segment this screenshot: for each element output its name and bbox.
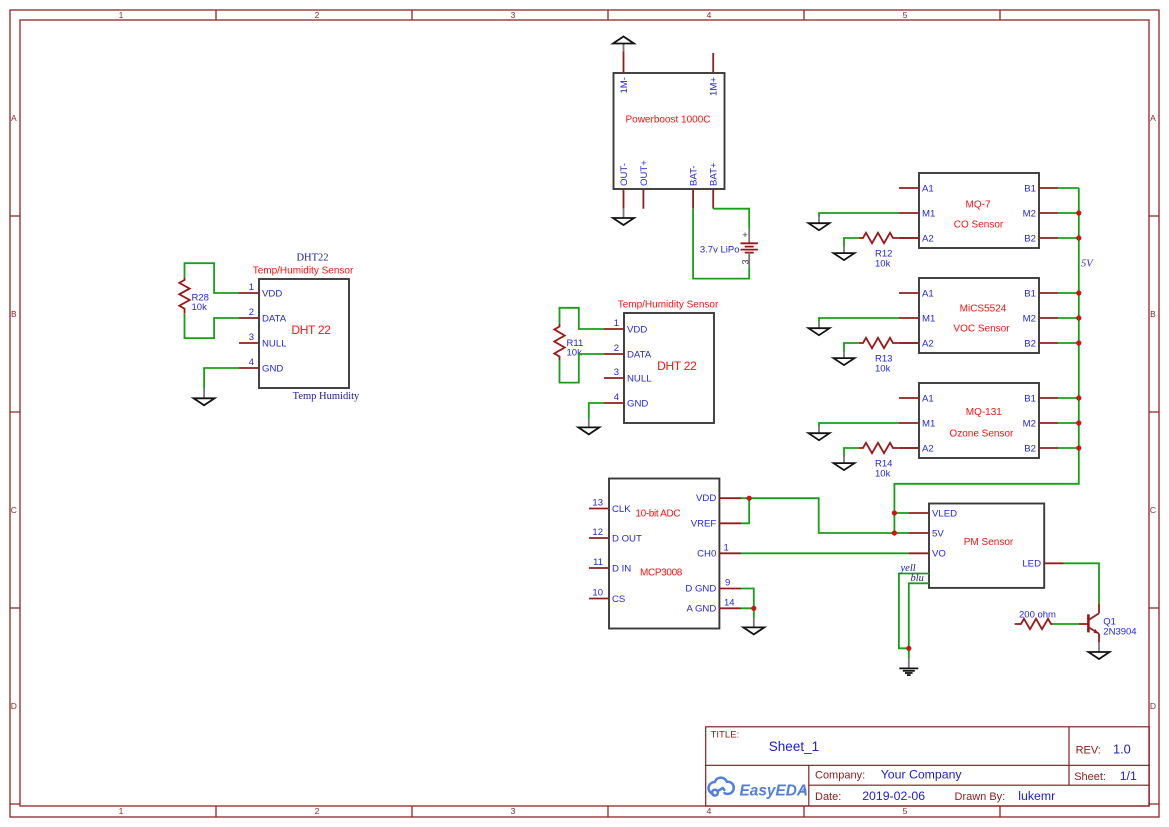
svg-text:Date:: Date: [815, 791, 841, 803]
U6 pin A2 [899, 338, 934, 349]
wire U5 M1 to ground [819, 213, 899, 217]
U7 name MQ-131 [966, 407, 1003, 418]
svg-text:5: 5 [903, 10, 908, 20]
svg-text:B2: B2 [1024, 338, 1036, 349]
U4 name MCP3008 [640, 568, 683, 579]
svg-text:A GND: A GND [686, 603, 716, 614]
R28 label [192, 293, 209, 314]
ground flag R14 [834, 457, 855, 471]
U3 pin 4 GND [239, 357, 283, 374]
junction at U8 5V [892, 530, 897, 535]
R12 label [875, 248, 892, 269]
wire R14 left to ground [844, 448, 859, 457]
svg-text:TITLE:: TITLE: [711, 730, 740, 741]
U6 pin M2 [1023, 313, 1058, 324]
svg-text:1M+: 1M+ [709, 77, 720, 96]
svg-text:1: 1 [249, 282, 254, 293]
svg-text:B2: B2 [1024, 443, 1036, 454]
svg-text:Drawn By:: Drawn By: [955, 791, 1006, 803]
svg-text:2: 2 [614, 343, 619, 354]
svg-text:B1: B1 [1024, 393, 1036, 404]
wire U4 CH0 to PM VO [741, 552, 909, 554]
frame column numbers top [119, 10, 908, 20]
earth ground below PM sensor [899, 658, 918, 675]
svg-text:DHT 22: DHT 22 [291, 323, 331, 337]
U8 pin LED [1022, 559, 1063, 570]
U4 pin 14 A GND [686, 598, 741, 615]
svg-text:VDD: VDD [696, 493, 716, 504]
svg-text:10k: 10k [192, 302, 208, 313]
svg-text:B: B [11, 309, 17, 319]
svg-text:B2: B2 [1024, 233, 1036, 244]
EasyEDA logo cloud [709, 778, 734, 796]
value 2019-02-06 [862, 789, 925, 803]
ground flag U2 [578, 419, 599, 434]
ground flag R12 [834, 247, 855, 261]
svg-text:C: C [11, 505, 17, 515]
wire 5V net to U8 VLED [894, 512, 909, 514]
power flag down at OUT- [613, 209, 634, 225]
wire U6 M1 to ground [819, 318, 899, 322]
wire U2 GND down [589, 403, 604, 419]
svg-text:2: 2 [315, 806, 320, 816]
U8 pin VO [909, 549, 946, 560]
svg-text:M2: M2 [1023, 418, 1036, 429]
U6 pin B2 [1024, 338, 1058, 349]
R13 pin stub to A2 [899, 342, 919, 344]
svg-text:D: D [1150, 701, 1156, 711]
U3 label DHT22 [296, 253, 328, 264]
svg-text:C: C [1150, 505, 1156, 515]
svg-text:NULL: NULL [262, 338, 287, 349]
U7 pin B1 [1024, 393, 1058, 404]
svg-text:12: 12 [592, 527, 603, 538]
wire U6 B1 to 5V net [1058, 292, 1079, 294]
svg-text:4: 4 [614, 392, 619, 403]
svg-text:B1: B1 [1024, 288, 1036, 299]
label Sheet: [1074, 771, 1106, 783]
R14 pin stub to A2 [899, 447, 919, 449]
U7 label Ozone Sensor [949, 429, 1014, 440]
net label 5V [1081, 258, 1094, 269]
svg-text:3: 3 [614, 367, 619, 378]
svg-text:2N3904: 2N3904 [1103, 627, 1136, 638]
U1 pin 1M+ [709, 53, 720, 96]
wire R13 left to ground [844, 343, 859, 352]
svg-text:Sheet_1: Sheet_1 [769, 739, 819, 754]
U1 name Powerboost 1000C [625, 115, 710, 126]
wire U6 M2 to 5V net [1058, 317, 1079, 319]
svg-text:B: B [1150, 309, 1156, 319]
svg-text:M2: M2 [1023, 313, 1036, 324]
component U6 MiCS5524 VOC Sensor [919, 278, 1039, 353]
U7 pin M2 [1023, 418, 1058, 429]
U6 label VOC Sensor [953, 323, 1010, 334]
svg-text:10k: 10k [567, 348, 583, 359]
frame ticks left [10, 216, 20, 804]
svg-text:A1: A1 [922, 288, 934, 299]
junction on 5V net at U7 B2 [1076, 445, 1081, 450]
svg-text:VO: VO [932, 549, 946, 560]
svg-text:lukemr: lukemr [1018, 789, 1055, 803]
wire U4 D GND to A GND [741, 589, 754, 609]
U6 name MiCS5524 [960, 304, 1007, 315]
wire BAT- to battery minus [693, 209, 749, 279]
junction at U8 VLED [892, 510, 897, 515]
R13 label [875, 353, 892, 374]
200 ohm label [1019, 609, 1056, 620]
svg-text:1: 1 [724, 542, 729, 553]
svg-text:4: 4 [707, 10, 712, 20]
svg-text:3: 3 [511, 806, 516, 816]
svg-text:DHT22: DHT22 [296, 253, 328, 264]
wire net yell [899, 574, 929, 649]
U4 pin 1 CH0 [697, 542, 741, 559]
U1 pin BAT- [689, 165, 700, 208]
value 1/1 [1120, 769, 1137, 783]
wire U6 B2 to 5V net [1058, 342, 1079, 344]
svg-text:Sheet:: Sheet: [1074, 771, 1106, 783]
svg-text:A2: A2 [922, 233, 934, 244]
svg-text:2019-02-06: 2019-02-06 [862, 789, 925, 803]
junction on 5V net at U7 M2 [1076, 420, 1081, 425]
svg-text:10k: 10k [875, 259, 891, 270]
U2 pin 3 NULL [604, 367, 652, 384]
svg-text:9: 9 [725, 577, 730, 588]
svg-text:4: 4 [249, 357, 254, 368]
U3 name DHT 22 [291, 323, 331, 337]
svg-text:D IN: D IN [612, 563, 631, 574]
wire R11 bottom to U2 DATA [560, 354, 605, 383]
wire R28 top to VDD [185, 263, 240, 293]
transistor Q1 2N3904 [1079, 603, 1099, 642]
svg-text:1: 1 [119, 10, 124, 20]
U6 pin B1 [1024, 288, 1058, 299]
component U4 MCP3008 10-bit ADC [609, 479, 719, 629]
frame row letters right [1150, 113, 1156, 711]
junction at yell/blu [906, 646, 911, 651]
svg-text:14: 14 [724, 598, 735, 609]
U6 pin M1 [899, 313, 935, 324]
svg-text:5: 5 [903, 806, 908, 816]
svg-text:CH0: CH0 [697, 548, 716, 559]
svg-text:DATA: DATA [627, 349, 652, 360]
svg-text:PM Sensor: PM Sensor [964, 537, 1014, 548]
svg-text:MiCS5524: MiCS5524 [960, 304, 1007, 315]
U5 label CO Sensor [954, 220, 1004, 231]
wire 5V net to U8 5V [894, 532, 909, 534]
U7 pin A1 [899, 393, 934, 404]
component U1 Powerboost 1000C [614, 73, 725, 189]
svg-text:1: 1 [614, 318, 619, 329]
U4 pin VDD [696, 493, 741, 504]
svg-text:LED: LED [1022, 559, 1041, 570]
svg-text:10: 10 [592, 588, 603, 599]
svg-text:M1: M1 [922, 208, 935, 219]
junction on 5V net at U5 M2 [1076, 210, 1081, 215]
svg-text:OUT-: OUT- [619, 163, 630, 186]
U8 pin 5V [909, 528, 944, 539]
U5 pin B2 [1024, 233, 1058, 244]
U3 label Temp/Humidity Sensor [253, 266, 354, 277]
battery BT1 3.7v LiPo [741, 229, 758, 268]
svg-text:D OUT: D OUT [612, 533, 642, 544]
resistor R14 [859, 443, 899, 453]
wire U4 VDD to VREF [741, 498, 749, 523]
svg-text:VREF: VREF [691, 518, 717, 529]
U4 pin 11 D IN [589, 557, 631, 574]
wire BAT+ to battery plus [713, 209, 749, 229]
frame ticks top [216, 10, 1000, 20]
svg-text:10k: 10k [875, 469, 891, 480]
R14 label [875, 458, 892, 479]
wire U4 VDD to 5V net [741, 498, 894, 533]
svg-text:M1: M1 [922, 418, 935, 429]
U1 pin 1M- [619, 52, 630, 94]
svg-text:VLED: VLED [932, 508, 957, 519]
title label TITLE: [711, 730, 740, 741]
U4 pin 12 D OUT [589, 527, 642, 544]
svg-text:M2: M2 [1023, 208, 1036, 219]
frame ticks bottom [216, 806, 1000, 817]
svg-text:GND: GND [262, 363, 283, 374]
svg-text:Temp Humidity: Temp Humidity [293, 391, 360, 402]
U2 name DHT 22 [657, 359, 697, 373]
svg-text:A1: A1 [922, 393, 934, 404]
svg-text:blu: blu [911, 573, 924, 584]
U5 name MQ-7 [966, 200, 991, 211]
svg-text:A: A [1150, 113, 1156, 123]
svg-text:MQ-7: MQ-7 [966, 200, 991, 211]
ground flag U7 M1 [809, 427, 830, 441]
wire R11 top to U2 VDD [560, 308, 605, 329]
frame column numbers bottom [119, 806, 908, 816]
svg-text:Powerboost 1000C: Powerboost 1000C [625, 115, 710, 126]
label REV: [1076, 745, 1101, 757]
U2 pin 4 GND [604, 392, 648, 409]
U3 label Temp Humidity [293, 391, 360, 402]
U3 pin 1 VDD [239, 282, 282, 299]
junction on 5V net at U5 B2 [1076, 235, 1081, 240]
svg-text:D: D [11, 701, 17, 711]
U5 pin M1 [899, 208, 935, 219]
svg-text:D GND: D GND [685, 584, 716, 595]
label Company: [815, 769, 865, 781]
svg-text:REV:: REV: [1076, 745, 1101, 757]
svg-text:Ozone Sensor: Ozone Sensor [949, 429, 1014, 440]
svg-text:M1: M1 [922, 313, 935, 324]
svg-text:EasyEDA: EasyEDA [740, 782, 808, 799]
svg-text:Temp/Humidity Sensor: Temp/Humidity Sensor [253, 266, 354, 277]
U4 pin 10 CS [589, 588, 625, 605]
junction at U4 A GND [751, 606, 756, 611]
component U3 DHT22 (left) [259, 279, 349, 388]
svg-text:A: A [11, 113, 17, 123]
U8 pin VLED [909, 508, 957, 519]
U1 pin OUT- [619, 163, 630, 209]
ground flag U6 M1 [809, 322, 830, 336]
U4 pin 9 D GND [685, 577, 741, 594]
svg-text:5V: 5V [1081, 258, 1094, 269]
svg-text:4: 4 [707, 806, 712, 816]
svg-text:2: 2 [249, 307, 254, 318]
wire 5V vertical net [894, 188, 1078, 533]
power flag up at 1M- [613, 37, 634, 52]
wire U5 M2 to 5V net [1058, 212, 1079, 214]
U3 pin 3 NULL [239, 332, 287, 349]
wire U7 B2 to 5V net [1058, 447, 1079, 449]
U7 pin A2 [899, 443, 934, 454]
svg-text:VDD: VDD [262, 288, 282, 299]
U1 pin BAT+ [709, 162, 720, 209]
R11 label [567, 338, 584, 359]
ground flag U4 [743, 618, 764, 634]
wire R28 bottom to DATA [185, 314, 240, 338]
U5 pin A1 [899, 183, 934, 194]
U2 label Temp/Humidity Sensor [618, 300, 719, 311]
svg-text:BAT+: BAT+ [709, 162, 720, 186]
svg-text:B1: B1 [1024, 183, 1036, 194]
frame ticks right [1149, 216, 1159, 804]
resistor R13 [859, 338, 899, 348]
svg-text:DHT 22: DHT 22 [657, 359, 697, 373]
junction on 5V net at U6 B2 [1076, 340, 1081, 345]
svg-text:3: 3 [741, 259, 751, 264]
svg-text:VOC Sensor: VOC Sensor [953, 323, 1010, 334]
U2 pin 2 DATA [604, 343, 652, 360]
wire U8 LED to Q1 collector [1064, 563, 1100, 603]
junction on 5V net at U6 B1 [1076, 290, 1081, 295]
ground flag Q1 emitter [1089, 642, 1110, 659]
svg-text:BAT-: BAT- [689, 165, 700, 186]
wire U3 GND down [204, 368, 239, 388]
svg-text:5V: 5V [932, 528, 944, 539]
junction on 5V net at U7 B1 [1076, 395, 1081, 400]
component U2 DHT22 (middle) [624, 313, 714, 423]
value Your Company [881, 767, 963, 781]
svg-text:Your Company: Your Company [881, 767, 963, 781]
title block frame [706, 727, 1149, 806]
svg-text:10k: 10k [875, 364, 891, 375]
title value Sheet_1 [769, 739, 819, 754]
svg-text:3: 3 [511, 10, 516, 20]
resistor R11 [554, 324, 564, 360]
svg-text:OUT+: OUT+ [639, 160, 650, 186]
ground flag U5 M1 [809, 217, 830, 231]
junction on 5V net at U6 M2 [1076, 315, 1081, 320]
Q1 label [1103, 617, 1136, 638]
U8 name PM Sensor [964, 537, 1014, 548]
svg-text:CO Sensor: CO Sensor [954, 220, 1004, 231]
battery label 3.7v LiPo [700, 245, 740, 256]
svg-text:CS: CS [612, 594, 625, 605]
svg-text:11: 11 [593, 557, 603, 568]
label Drawn By: [955, 791, 1006, 803]
resistor R‍200 ohm [1015, 619, 1053, 629]
wire U7 M1 to ground [819, 423, 899, 427]
U3 pin 2 DATA [239, 307, 287, 324]
ground flag R13 [834, 352, 855, 366]
wire U4 A GND to ground [741, 608, 754, 618]
U2 pin 1 VDD [604, 318, 647, 335]
value 1.0 [1113, 742, 1131, 757]
U4 pin VREF [691, 518, 741, 529]
svg-text:MCP3008: MCP3008 [640, 568, 683, 579]
wire U5 B2 to 5V net [1058, 237, 1079, 239]
svg-text:1.0: 1.0 [1113, 742, 1131, 757]
frame row letters left [11, 113, 17, 711]
wire R200 to Q1 base [1053, 623, 1079, 625]
svg-text:A2: A2 [922, 443, 934, 454]
resistor R28 [179, 278, 189, 314]
wire R12 left to ground [844, 238, 859, 247]
junction at U4 VDD [747, 496, 752, 501]
svg-text:1: 1 [119, 806, 124, 816]
component U5 MQ-7 CO Sensor [919, 173, 1039, 248]
svg-text:1M-: 1M- [619, 77, 630, 94]
svg-text:Company:: Company: [815, 769, 865, 781]
R12 pin stub to A2 [899, 237, 919, 239]
svg-text:1/1: 1/1 [1120, 769, 1137, 783]
svg-text:200 ohm: 200 ohm [1019, 609, 1056, 620]
ground flag U3 [194, 388, 215, 405]
U1 pin OUT+ [639, 160, 650, 209]
wire U7 B1 to 5V net [1058, 397, 1079, 399]
EasyEDA logo text [740, 782, 808, 799]
svg-text:10-bit ADC: 10-bit ADC [635, 508, 680, 519]
svg-text:MQ-131: MQ-131 [966, 407, 1003, 418]
resistor R12 [859, 233, 899, 243]
svg-text:2: 2 [315, 10, 320, 20]
U7 pin M1 [899, 418, 935, 429]
U4 name 10-bit ADC [635, 508, 680, 519]
svg-text:CLK: CLK [612, 504, 631, 515]
U5 pin M2 [1023, 208, 1058, 219]
svg-text:NULL: NULL [627, 373, 652, 384]
wire net blu [909, 583, 929, 658]
component U8 PM Sensor [929, 504, 1044, 588]
label Date: [815, 791, 841, 803]
svg-text:DATA: DATA [262, 313, 287, 324]
component U7 MQ-131 Ozone Sensor [919, 383, 1039, 458]
net label yell [900, 563, 916, 574]
svg-text:VDD: VDD [627, 324, 647, 335]
U6 pin A1 [899, 288, 934, 299]
svg-text:A2: A2 [922, 338, 934, 349]
svg-text:3: 3 [249, 332, 254, 343]
wire U7 M2 to 5V net [1058, 422, 1079, 424]
svg-text:GND: GND [627, 398, 648, 409]
svg-text:13: 13 [592, 498, 603, 509]
U7 pin B2 [1024, 443, 1058, 454]
U5 pin A2 [899, 233, 934, 244]
svg-text:3.7v LiPo: 3.7v LiPo [700, 245, 740, 256]
net label blu [911, 573, 924, 584]
U5 pin B1 [1024, 183, 1058, 194]
wire U5 B1 to 5V net [1058, 187, 1079, 189]
svg-text:+: + [742, 230, 748, 241]
value lukemr [1018, 789, 1055, 803]
U4 pin 13 CLK [589, 498, 631, 515]
svg-text:A1: A1 [922, 183, 934, 194]
svg-text:Temp/Humidity Sensor: Temp/Humidity Sensor [618, 300, 719, 311]
